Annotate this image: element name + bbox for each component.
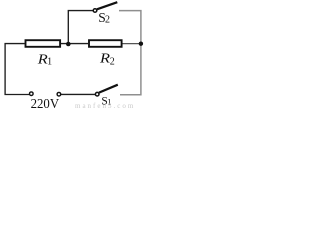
svg-text:manfen5.com: manfen5.com [75, 102, 135, 110]
svg-text:2: 2 [110, 57, 115, 68]
svg-text:R: R [99, 52, 111, 67]
svg-text:1: 1 [47, 57, 52, 68]
svg-text:2: 2 [105, 15, 110, 26]
svg-text:220V: 220V [31, 96, 60, 110]
